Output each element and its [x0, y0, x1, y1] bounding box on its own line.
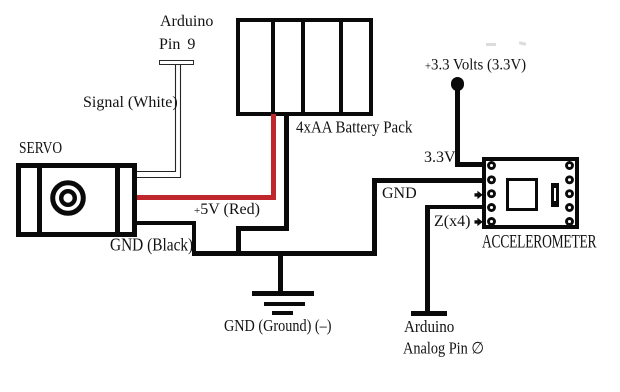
accelerometer U1 small component slot opening [554, 188, 557, 201]
arrow marker at accelerometer pin 5 [473, 216, 484, 227]
wire ground bus horizontal [192, 251, 377, 256]
label +3.3 Volts (3.3V) [425, 57, 526, 73]
accelerometer U1 board [482, 157, 579, 229]
arrow marker at accelerometer pin 3 [473, 189, 484, 200]
label SERVO [19, 140, 62, 157]
servo M1 body [16, 163, 137, 238]
label Signal (White) [83, 95, 178, 111]
wire +3.3V horizontal segment into accelerometer [455, 162, 485, 167]
battery BT1 cell divider 2 [301, 22, 305, 113]
wire Z output vertical segment [425, 205, 430, 312]
servo M1 output horn (concentric circles) [46, 176, 90, 220]
accelerometer U1 pin pads (left and right columns) [482, 157, 579, 229]
wire Z output horizontal segment [427, 205, 485, 210]
label GND (Ground) (-) [224, 318, 331, 335]
label 3.3V (accelerometer pin) [424, 150, 456, 166]
connector J1 Arduino Pin 9 header (T shape) [159, 60, 194, 66]
label GND (Black) [110, 237, 193, 255]
label Analog Pin 0 (slashed zero) [403, 341, 484, 357]
wire ground bus to accelerometer GND vertical [372, 178, 377, 256]
connector Arduino Analog Pin 0 end bar [411, 311, 447, 316]
wire signal white (outlined) from J1 to servo [130, 60, 190, 185]
ground symbol stem [278, 256, 283, 292]
ground symbol bar 3 [272, 311, 294, 315]
label Arduino (pin 9, top) [160, 14, 213, 30]
servo M1 right flange divider [115, 167, 121, 233]
label Z(x4) [434, 214, 470, 230]
ground symbol bar 2 [264, 302, 305, 307]
label 4xAA Battery Pack [296, 119, 412, 136]
wire accelerometer GND horizontal [372, 178, 486, 183]
faint smudge artifact left [486, 43, 496, 46]
label Pin 9 [159, 37, 195, 53]
wire +5V red horizontal segment to servo [137, 195, 276, 200]
label GND (accelerometer pin) [382, 186, 417, 202]
accelerometer U1 small component (slot) [551, 183, 559, 207]
label ACCELEROMETER [482, 233, 596, 251]
node +3.3V junction dot [451, 77, 465, 91]
ground symbol bar 1 [252, 291, 314, 296]
wire servo GND vertical drop to ground bus [192, 221, 197, 256]
wire +5V red vertical segment from battery [271, 114, 276, 200]
battery BT1 cell divider 3 [339, 22, 343, 113]
label Arduino (bottom) [404, 319, 454, 336]
battery BT1 cell divider 1 [271, 22, 275, 113]
wire battery negative horizontal jog [236, 226, 289, 231]
servo M1 left flange divider [37, 167, 43, 233]
wire servo GND horizontal segment [137, 221, 196, 226]
faint smudge artifact right [519, 41, 526, 45]
wire +3.3V vertical segment [455, 88, 460, 166]
accelerometer U1 sensor chip [506, 178, 539, 211]
label +5V (Red) [194, 202, 260, 218]
battery BT1 4xAA pack body [236, 18, 373, 117]
wire battery negative drop to ground bus [236, 226, 241, 256]
wire battery negative vertical segment [284, 114, 289, 231]
